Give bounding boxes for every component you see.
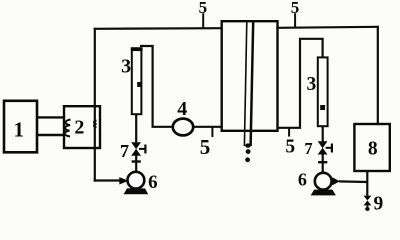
- svg-text:8: 8: [368, 139, 378, 160]
- svg-text:4: 4: [177, 98, 187, 120]
- wire right drop to box 8 top: [377, 27, 379, 124]
- pump/circulator 4: [173, 98, 193, 135]
- pump 6 left: [119, 172, 157, 195]
- node label 5 leader (feed line): [200, 127, 213, 159]
- box 2: [64, 106, 100, 148]
- wire circle 4 to module left wall: [193, 126, 222, 128]
- float (right rotameter): [320, 105, 325, 110]
- coil mark on pipe in box 2: [94, 121, 97, 128]
- coil in box 2: [65, 120, 71, 137]
- wire left drop x=95: [94, 29, 96, 181]
- svg-text:7: 7: [304, 139, 312, 158]
- wire rotameter3R bottom to valve 7R: [322, 126, 324, 141]
- svg-text:9: 9: [374, 194, 384, 215]
- svg-text:5: 5: [291, 0, 300, 17]
- permeate drops: [245, 143, 251, 147]
- rotameter R3 left: [121, 48, 143, 114]
- wire valve 7R to pump 6R with flange: [318, 154, 327, 172]
- wire rotameter3L top to circle 4: [140, 46, 173, 127]
- membrane module (outer shell): [222, 21, 278, 162]
- svg-text:3: 3: [307, 74, 317, 95]
- wire pump 6R outlet to box 8 bottom tee: [339, 180, 368, 183]
- box 1: [4, 101, 37, 153]
- float (left rotameter): [137, 82, 142, 87]
- inner membrane tube right line: [251, 22, 254, 147]
- wire top rail left (module to left drop): [95, 27, 222, 30]
- svg-text:2: 2: [74, 117, 84, 139]
- valve 7 right: [304, 139, 332, 158]
- rotameter R3 right: [307, 57, 328, 126]
- svg-text:5: 5: [285, 137, 295, 158]
- svg-text:7: 7: [120, 141, 129, 161]
- svg-text:5: 5: [200, 135, 211, 159]
- svg-text:5: 5: [199, 0, 208, 17]
- wire valve 7L to pump 6L with flange: [132, 155, 141, 172]
- node label 5 (top right pipe): [291, 0, 300, 28]
- wire box 8 bottom to drain valve 9: [366, 171, 368, 196]
- node label 5 leader (right lower pipe): [285, 128, 295, 158]
- wire box1-box2 upper: [37, 116, 64, 118]
- node label 5 (top left pipe): [199, 0, 208, 28]
- wire top rail right (module to right drop): [278, 27, 378, 28]
- svg-text:6: 6: [298, 170, 307, 190]
- valve 7 left: [120, 141, 145, 161]
- valve 9 (drain): [364, 194, 384, 215]
- svg-text:1: 1: [13, 118, 24, 142]
- wire module right outlet up-and-over to rotameter 3R: [277, 39, 322, 128]
- svg-text:3: 3: [121, 55, 131, 77]
- box 8: [354, 124, 389, 171]
- pump 6 right: [298, 170, 340, 196]
- inner membrane tube left line: [244, 22, 246, 147]
- svg-text:6: 6: [148, 172, 158, 193]
- wire box1-box2 lower: [37, 134, 64, 136]
- wire pump 6 left inlet: [95, 179, 121, 181]
- wire rotameter3L bottom to valve 7L: [135, 114, 137, 142]
